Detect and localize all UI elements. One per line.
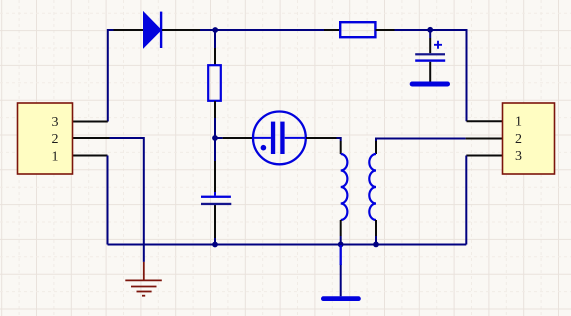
pin 2 lead of connector J1	[73, 137, 110, 139]
pin lead C2 bottom	[429, 62, 431, 82]
pin 2 lead of connector J2	[466, 138, 503, 140]
svg-text:3: 3	[515, 149, 522, 164]
pin lead T1 secondary top	[375, 141, 377, 154]
connector J2	[503, 103, 555, 174]
pin lead Y1 left	[223, 137, 253, 139]
svg-text:1: 1	[515, 115, 522, 130]
connector J1	[18, 103, 73, 174]
pin lead diode D1 cathode	[162, 29, 200, 31]
wire from mid junction down to C1	[214, 138, 216, 161]
power port lead (blue)	[340, 245, 342, 265]
junction at C2 top node	[427, 27, 433, 33]
wire from R1 to mid junction	[214, 118, 216, 138]
pin 3 lead of connector J1	[73, 121, 108, 123]
pin lead Y1 right	[306, 137, 337, 139]
junction bus at C1	[212, 242, 218, 248]
pin lead T1 primary bottom	[340, 220, 342, 236]
wire from top junction down to R1	[214, 30, 216, 48]
wire from R2 to top-right corner	[395, 30, 467, 121]
pin lead C1 top	[214, 161, 216, 196]
svg-text:2: 2	[52, 132, 59, 147]
polarized capacitor C2	[415, 41, 445, 62]
pin lead R1 bottom	[214, 101, 216, 118]
wire C1 bottom to bus	[214, 238, 216, 245]
wire from T1 secondary top to J2 pin 2	[376, 139, 466, 142]
transformer T1 secondary winding	[369, 154, 376, 220]
power bar (blue) top right	[410, 82, 450, 87]
wire right side down to bus	[465, 156, 467, 245]
wire bottom bus	[108, 244, 467, 246]
pin lead C2 top	[429, 38, 431, 53]
diode D1	[144, 12, 163, 48]
wire ground leg below bus	[143, 245, 145, 262]
wire stub from junction to C2	[429, 30, 431, 38]
transducer Y1 (crystal in circle)	[253, 111, 306, 164]
pin lead R2 right	[376, 29, 395, 31]
wire top middle	[200, 29, 324, 31]
pin 3 lead of connector J2	[466, 155, 502, 157]
pin 1 lead of connector J1	[73, 155, 108, 157]
pin lead R1 top	[214, 48, 216, 65]
power bar (blue) bottom	[321, 296, 361, 301]
pin lead T1 secondary bottom	[375, 220, 377, 236]
junction mid at node of C1/R1	[212, 135, 218, 141]
wire/lead to bottom power bar	[340, 264, 342, 296]
transformer T1 primary winding	[341, 154, 348, 220]
wire J1 pin2 to ground leg	[110, 138, 144, 245]
wire from Y1 to transformer primary top	[337, 138, 341, 141]
pin lead C1 bottom	[214, 205, 216, 238]
pin 1 lead of connector J2	[467, 120, 503, 122]
svg-text:1: 1	[52, 149, 59, 164]
wire T1 secondary bottom to bus	[375, 236, 377, 245]
capacitor C1	[201, 192, 231, 209]
pin lead R2 left	[324, 29, 340, 31]
wire top-left corner net (diode anode net)	[108, 30, 114, 122]
pin lead diode D1 anode	[114, 29, 144, 31]
junction bus at T1 primary	[338, 242, 344, 248]
resistor R2	[340, 22, 375, 37]
pin lead T1 primary top	[340, 141, 342, 154]
resistor R1	[208, 65, 221, 101]
junction bus at T1 secondary	[373, 242, 379, 248]
wire T1 primary bottom to bus	[340, 236, 342, 245]
wire J1 pin1 down to bus	[107, 156, 109, 245]
ground GND symbol	[125, 262, 162, 296]
svg-text:3: 3	[52, 115, 59, 130]
junction top at node of R1	[212, 27, 218, 33]
svg-text:2: 2	[515, 132, 522, 147]
wire mid from junction to Y1	[215, 137, 223, 139]
